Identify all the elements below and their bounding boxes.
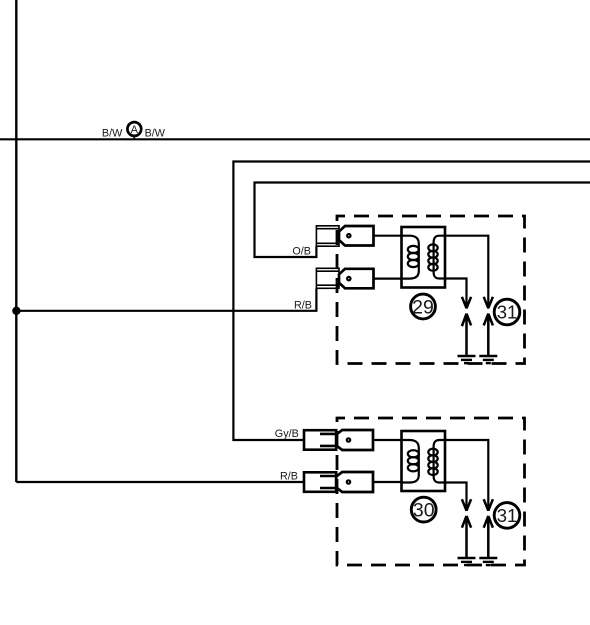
connector male bullet O/B <box>339 226 374 246</box>
node A <box>127 122 141 139</box>
wire: R/B upper branch from junction <box>16 288 316 311</box>
coil 30 secondary winding <box>428 440 445 483</box>
svg-text:30: 30 <box>413 500 435 522</box>
arrow down right (29) <box>484 297 493 308</box>
coil 29 primary winding <box>402 236 419 279</box>
arrow down left (30) <box>462 499 471 510</box>
svg-text:B/W: B/W <box>145 128 166 140</box>
wire: main left vertical bus <box>15 0 17 482</box>
circle label 30 <box>411 497 436 522</box>
wire: coil 30 secondary top to right drop <box>445 440 488 511</box>
ground left (30) <box>458 558 476 565</box>
svg-text:31: 31 <box>497 505 518 526</box>
arrow up left (30) <box>462 516 471 558</box>
dashed enclosure box 30 <box>337 418 525 565</box>
connector female O/B <box>316 226 339 246</box>
coil 30 primary winding <box>402 440 419 483</box>
svg-text:B/W: B/W <box>102 128 123 140</box>
svg-text:29: 29 <box>412 296 434 318</box>
wire: bullet O/B to coil <box>374 235 402 237</box>
arrow up right (30) <box>484 516 493 558</box>
coil 29 secondary winding <box>428 236 445 279</box>
arrow up left (29) <box>462 314 471 356</box>
svg-text:A: A <box>131 124 139 136</box>
ignition coil 30 body <box>402 431 446 491</box>
circle label 31 lower <box>494 503 520 529</box>
ground right (29) <box>479 356 497 363</box>
wire: coil secondary top to right drop <box>445 236 488 309</box>
arrow up right (29) <box>484 314 493 356</box>
svg-text:R/B: R/B <box>280 470 298 482</box>
wire: bullet R/B to coil <box>374 278 402 280</box>
connector male bullet Gy/B <box>336 430 373 450</box>
wire: upper horizontal to right edge with corner down (to Gy/B) <box>233 162 590 441</box>
connector male bullet R/B upper <box>339 269 374 289</box>
connector female R/B upper <box>316 268 339 288</box>
connector female R/B lower <box>304 472 336 492</box>
svg-text:O/B: O/B <box>292 246 311 258</box>
junction dot <box>12 307 20 315</box>
ground right (30) <box>479 558 497 565</box>
arrow down right (30) <box>484 499 493 510</box>
wire: coil secondary bottom drop <box>445 279 467 309</box>
ground left (29) <box>458 356 476 363</box>
svg-text:31: 31 <box>497 302 518 323</box>
ignition coil 29 body <box>402 227 446 288</box>
wire: coil 30 secondary bottom drop <box>445 483 467 512</box>
svg-text:R/B: R/B <box>294 299 312 311</box>
circle label 29 <box>411 294 436 319</box>
wire: R/B lower branch <box>16 481 304 483</box>
wire: bullet R/B lower to coil <box>373 481 402 483</box>
connector male bullet R/B lower <box>336 472 373 492</box>
wire: second horizontal to right edge with corner down (to O/B) <box>255 183 590 258</box>
dashed enclosure box 29 <box>337 216 525 364</box>
arrow down left (29) <box>462 297 471 308</box>
wire: full-width horizontal B/W line <box>0 138 590 140</box>
wire: bullet Gy/B to coil <box>373 439 402 441</box>
svg-text:Gy/B: Gy/B <box>275 428 299 440</box>
connector female Gy/B <box>304 430 336 450</box>
circle label 31 upper <box>494 299 520 325</box>
